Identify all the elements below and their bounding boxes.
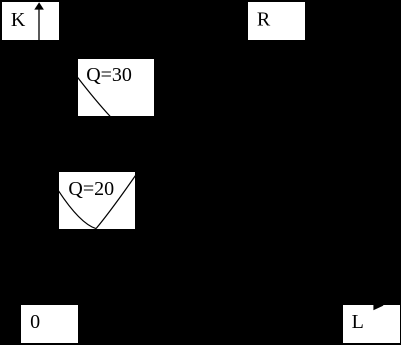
svg-text:K: K — [11, 9, 26, 31]
svg-text:Q=20: Q=20 — [68, 178, 114, 200]
isoquant Q=20 curve segment (left branch) — [59, 191, 97, 229]
label box Q=20 — [59, 172, 135, 229]
label box Q=30 — [78, 59, 154, 116]
svg-text:R: R — [257, 9, 271, 31]
svg-text:0: 0 — [30, 311, 40, 333]
label box L (labour axis label) — [343, 305, 400, 343]
text Q=30 — [86, 64, 132, 86]
text K — [11, 9, 26, 31]
ray 0R segment (right branch rising through Q=20 box) — [96, 176, 136, 229]
vertical axis (K axis) wire — [38, 8, 40, 304]
text 0 — [30, 311, 40, 333]
text Q=20 — [68, 178, 114, 200]
text L — [352, 311, 364, 333]
horizontal axis (L axis) wire — [39, 303, 374, 305]
svg-text:Q=30: Q=30 — [86, 64, 132, 86]
label box 0 (origin) — [21, 305, 78, 343]
label box R (ray label) — [248, 2, 305, 40]
vertical axis arrowhead — [34, 2, 44, 9]
svg-text:L: L — [352, 311, 364, 333]
horizontal axis arrowhead (notch visible at top of L box) — [373, 300, 383, 310]
label box K (capital axis label) — [2, 2, 59, 40]
isoquant Q=30 curve segment — [78, 77, 111, 116]
text R — [257, 9, 271, 31]
